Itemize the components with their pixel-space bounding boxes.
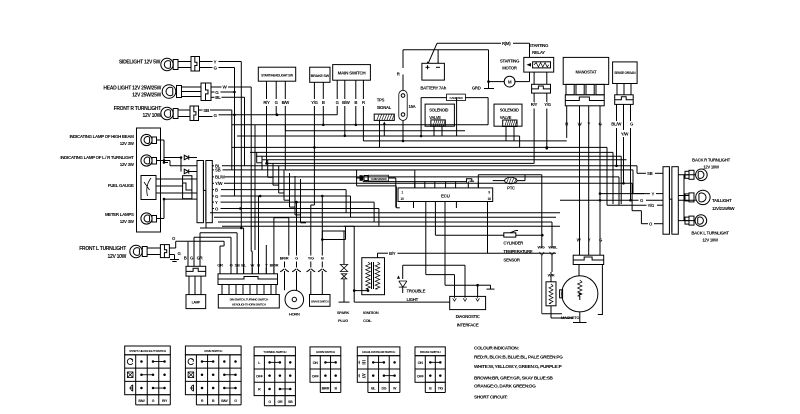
wire coil bottom xyxy=(353,291,355,303)
svg-text:Y: Y xyxy=(587,122,590,127)
table main switch xyxy=(185,346,241,355)
main switch box xyxy=(333,65,371,81)
connector sidelight xyxy=(191,57,200,72)
wire BR/R pin link xyxy=(273,218,275,274)
ECU xyxy=(398,188,493,202)
svg-text:SIGNAL: SIGNAL xyxy=(377,105,392,110)
svg-text:M: M xyxy=(508,80,512,85)
wire W headlight xyxy=(211,86,222,88)
svg-text:BRAKE SW: BRAKE SW xyxy=(311,74,330,78)
diag feed horizontals xyxy=(426,274,455,276)
diode D2 xyxy=(180,158,182,172)
table start/headlight switch xyxy=(125,346,171,355)
wire Y vertical xyxy=(240,62,242,229)
svg-text:Y/G: Y/G xyxy=(438,387,444,391)
wire R manostat xyxy=(566,106,568,138)
nest riser 7 xyxy=(289,173,291,207)
PTC xyxy=(493,180,505,182)
handlebar switch box xyxy=(218,295,279,309)
svg-text:Y/G: Y/G xyxy=(311,100,318,105)
wire G sidelight xyxy=(200,67,213,69)
svg-text:HORN: HORN xyxy=(289,312,300,317)
connector front R turnlight xyxy=(190,106,199,121)
solenoid verticals xyxy=(456,98,458,136)
wire BL out xyxy=(212,165,214,167)
wire W pin xyxy=(251,250,252,252)
svg-text:Y/W: Y/W xyxy=(621,131,629,136)
staircase YW to O tail xyxy=(631,183,633,210)
table horn switch xyxy=(310,347,341,356)
svg-text:B: B xyxy=(184,256,187,261)
wire R/Y relay xyxy=(533,93,535,102)
svg-text:12V/21W/5W: 12V/21W/5W xyxy=(712,206,736,211)
wire meter lamp xyxy=(157,218,165,220)
handlebar connector xyxy=(218,274,278,285)
svg-text:START/HEADLIGHT SW: START/HEADLIGHT SW xyxy=(261,74,294,78)
svg-text:BACK L TURNLIGHT: BACK L TURNLIGHT xyxy=(691,231,729,236)
diagnostic interface xyxy=(450,296,486,309)
svg-text:METER LAMPS: METER LAMPS xyxy=(105,212,134,217)
wire headlight to connector xyxy=(182,86,202,88)
bus line y130.8 xyxy=(285,130,465,132)
svg-text:B: B xyxy=(354,100,357,105)
svg-text:SB: SB xyxy=(288,400,293,404)
wire high beam lamp xyxy=(157,139,165,141)
wire B/Y xyxy=(377,253,379,258)
svg-text:TEMPERATURE: TEMPERATURE xyxy=(503,249,533,254)
diode D1 xyxy=(164,157,181,159)
svg-text:HIGH/LOW BEAM SWITCH: HIGH/LOW BEAM SWITCH xyxy=(362,350,396,354)
wire front R turnlight xyxy=(178,109,190,111)
wire y239.5 xyxy=(322,239,345,241)
spark feed xyxy=(343,231,345,265)
wire Y/G tail xyxy=(607,204,647,206)
svg-text:TPS: TPS xyxy=(377,98,385,103)
wire G vertical xyxy=(234,68,236,197)
spark plug xyxy=(340,265,347,272)
table brake switch xyxy=(415,347,445,356)
svg-text:Y/G: Y/G xyxy=(544,102,551,107)
wires lamp connector to box xyxy=(188,276,190,295)
wire G out xyxy=(212,195,214,197)
wire turnlight lamp xyxy=(157,160,165,162)
svg-text:FRONT L TURNLIGHT: FRONT L TURNLIGHT xyxy=(79,246,126,252)
wire W vertical xyxy=(250,87,252,251)
nest riser 2 xyxy=(261,156,263,170)
svg-text:PLUG: PLUG xyxy=(338,318,348,323)
svg-text:STARTING: STARTING xyxy=(529,43,549,48)
bus line y136 xyxy=(237,135,520,137)
svg-text:Y/G: Y/G xyxy=(308,256,314,261)
wire B/W main switch xyxy=(344,80,346,99)
wire Y/W sense xyxy=(623,104,625,130)
nest riser 4 xyxy=(272,163,274,185)
canister label box xyxy=(421,97,447,99)
svg-text:BR/R: BR/R xyxy=(270,263,279,268)
connector magneto xyxy=(573,255,604,264)
wire vertical x255 xyxy=(254,125,256,250)
wire R/Y start switch xyxy=(266,81,268,99)
connector manostat xyxy=(565,95,604,106)
wire BR/R horn xyxy=(288,218,290,256)
svg-text:SENSE ORGAN: SENSE ORGAN xyxy=(614,71,636,75)
flasher unit xyxy=(183,176,192,199)
svg-text:B/Y: B/Y xyxy=(389,251,396,256)
wire W manostat xyxy=(579,106,581,255)
svg-text:12V 10W: 12V 10W xyxy=(703,165,720,170)
svg-text:VALVE: VALVE xyxy=(429,115,441,120)
table turning switch xyxy=(254,347,295,356)
instrument cluster box xyxy=(137,128,161,232)
wire GR lamp xyxy=(199,233,201,266)
svg-text:SPARK: SPARK xyxy=(337,310,350,315)
svg-text:BR/R: BR/R xyxy=(322,387,330,391)
wire battery minus xyxy=(437,50,439,64)
wire W/BL xyxy=(551,228,553,248)
svg-text:BL: BL xyxy=(215,95,221,100)
svg-text:DG: DG xyxy=(382,387,387,391)
svg-text:OFF: OFF xyxy=(256,374,264,378)
wire Y/G switch xyxy=(313,147,315,205)
wires diagnostic xyxy=(454,275,456,297)
wire G headlight xyxy=(211,91,215,93)
svg-text:START / HEADLIGHT SWITCH: START / HEADLIGHT SWITCH xyxy=(129,349,167,353)
svg-text:FRONT R TURNLIGHT: FRONT R TURNLIGHT xyxy=(114,106,162,112)
ECU left tab xyxy=(395,186,397,207)
wire Y sidelight xyxy=(200,61,213,63)
svg-text:SIDELIGHT 12V 5W: SIDELIGHT 12V 5W xyxy=(119,60,161,66)
staircase BL to SB tail xyxy=(636,166,638,174)
ECU pin verticals down xyxy=(425,202,427,275)
connector headlight xyxy=(201,83,211,101)
wire BL/W out xyxy=(212,176,214,178)
nest riser 3 xyxy=(267,160,269,178)
wire canister right xyxy=(487,98,489,125)
wire G front R turnlight bus xyxy=(199,116,213,118)
wire L/R lamp to connector xyxy=(164,160,170,162)
svg-text:SOLENOID: SOLENOID xyxy=(429,108,448,113)
svg-text:BATTERY 7Ah: BATTERY 7Ah xyxy=(420,86,446,91)
nest riser 9 xyxy=(300,179,302,223)
svg-text:R/Y: R/Y xyxy=(263,100,270,105)
nest corner B switch xyxy=(322,230,345,232)
wire G lamp xyxy=(193,237,195,266)
svg-text:BRAKE SWITCH: BRAKE SWITCH xyxy=(420,350,442,354)
svg-text:BL/W: BL/W xyxy=(215,175,226,180)
svg-text:12V 10W: 12V 10W xyxy=(143,113,162,119)
wire Y/W out xyxy=(212,182,214,184)
wire SB out xyxy=(212,169,214,171)
connector instrument cluster xyxy=(197,161,203,223)
carbon sensor label xyxy=(369,175,389,181)
svg-text:DIM SWITCH, TURNING SWITCH: DIM SWITCH, TURNING SWITCH xyxy=(230,297,268,301)
solenoid valve 2 xyxy=(494,104,522,126)
svg-text:MAIN SWITCH: MAIN SWITCH xyxy=(338,71,367,76)
wire R fuse xyxy=(402,75,404,91)
svg-text:B/W: B/W xyxy=(282,100,291,105)
svg-text:FUEL GAUGE: FUEL GAUGE xyxy=(108,183,134,188)
svg-text:B/W: B/W xyxy=(221,399,228,403)
handlebar connector pins xyxy=(221,285,223,295)
wire ignition coil feed xyxy=(353,226,355,290)
wire B brake xyxy=(322,82,324,99)
hook jumper near ECU xyxy=(467,179,472,183)
svg-text:STARTING: STARTING xyxy=(500,59,520,64)
wire Y pin xyxy=(265,245,267,274)
lamp box xyxy=(186,295,206,309)
table high/low beam switch xyxy=(357,347,400,356)
svg-text:INTERFACE: INTERFACE xyxy=(457,323,479,328)
wire nest y232 xyxy=(200,232,237,234)
rear brake switch box xyxy=(310,295,331,307)
svg-text:SHORT CIRCUIT:: SHORT CIRCUIT: xyxy=(474,394,508,399)
wire BL vertical xyxy=(244,97,246,166)
wire SB tail xyxy=(641,172,646,174)
svg-text:Y: Y xyxy=(215,200,218,205)
fuse 15A xyxy=(399,90,407,120)
svg-text:TURNING SWITCH: TURNING SWITCH xyxy=(263,350,287,354)
magneto ground xyxy=(579,312,581,323)
wire R main switch xyxy=(362,80,364,99)
svg-text:B/W: B/W xyxy=(342,100,351,105)
horn xyxy=(285,290,304,309)
svg-text:G: G xyxy=(295,256,298,261)
front brake switch box xyxy=(310,67,330,82)
bus line y159.8 xyxy=(262,159,627,161)
bus line y152.4 xyxy=(250,151,613,153)
magneto xyxy=(562,276,598,312)
long bus y212.7 xyxy=(210,212,560,214)
svg-text:CYLINDER: CYLINDER xyxy=(503,241,524,246)
wire GR pin xyxy=(200,227,206,229)
wire fuel gauge to connector xyxy=(156,178,197,180)
bus line y181.6 xyxy=(363,181,467,183)
wire G tail xyxy=(560,199,639,201)
staircase BLW down xyxy=(618,177,620,205)
ECU bottom pins xyxy=(413,202,415,209)
wire B out xyxy=(212,189,214,191)
wire O out xyxy=(212,208,214,210)
svg-text:R/Y: R/Y xyxy=(531,102,538,107)
svg-text:HORN SWITCH: HORN SWITCH xyxy=(316,350,336,354)
connector sense organ xyxy=(615,95,634,105)
svg-text:RELAY: RELAY xyxy=(532,50,545,55)
wire B main switch xyxy=(355,80,357,99)
wire G horn xyxy=(296,202,298,255)
svg-text:BRAKE SWITCH: BRAKE SWITCH xyxy=(311,300,329,304)
wire O nest xyxy=(176,240,224,242)
wire G start switch xyxy=(275,81,277,99)
bus line y124.8 xyxy=(232,124,488,126)
svg-text:LIGHT: LIGHT xyxy=(407,297,419,302)
long bus y217.3 xyxy=(214,216,556,218)
wire canister left xyxy=(420,98,422,136)
wire sidelight to connector xyxy=(178,61,191,63)
svg-text:PTC: PTC xyxy=(507,186,515,191)
svg-text:ON: ON xyxy=(418,361,424,365)
carbon sensor plug xyxy=(356,177,360,179)
svg-text:15A: 15A xyxy=(409,104,416,109)
nest corners to pins xyxy=(223,241,225,246)
wire battery plus xyxy=(428,43,437,63)
cylinder temperature sensor xyxy=(435,234,503,236)
nest riser 5 xyxy=(278,166,280,193)
svg-text:12V 10W: 12V 10W xyxy=(702,238,719,243)
svg-text:VALVE: VALVE xyxy=(500,115,512,120)
battery xyxy=(422,63,445,80)
bus line y147.4 YG net xyxy=(232,146,607,148)
wire SB front R xyxy=(199,109,203,111)
svg-text:R(M): R(M) xyxy=(502,41,511,46)
svg-text:B: B xyxy=(322,100,325,105)
svg-text:W/BL: W/BL xyxy=(548,245,558,250)
svg-text:TAILLIGHT: TAILLIGHT xyxy=(712,198,732,203)
svg-text:16: 16 xyxy=(488,197,492,201)
wire G main switch xyxy=(336,80,338,99)
svg-text:OFF: OFF xyxy=(417,374,425,378)
tail bulb links xyxy=(683,175,685,221)
bus line y156.2 xyxy=(256,155,621,157)
svg-text:SB: SB xyxy=(647,171,653,176)
svg-text:INDICATING LAMP OF L / R TURNL: INDICATING LAMP OF L / R TURNLIGHT xyxy=(60,155,134,160)
connector starting relay xyxy=(533,72,535,84)
wire B pin xyxy=(258,196,260,274)
ECU top pins xyxy=(414,182,416,188)
staircase SB to Y tail xyxy=(631,169,634,171)
svg-text:SB: SB xyxy=(203,108,210,113)
svg-text:B: B xyxy=(215,187,218,192)
svg-text:10: 10 xyxy=(400,197,404,201)
svg-text:BR/R: BR/R xyxy=(280,256,289,261)
svg-text:GRD: GRD xyxy=(472,86,481,91)
svg-text:BL/W: BL/W xyxy=(611,122,622,127)
trouble light xyxy=(402,265,404,279)
wire Y out xyxy=(212,201,214,203)
svg-text:CARB SENSOR: CARB SENSOR xyxy=(371,177,387,181)
wire Y/G brake xyxy=(313,82,315,99)
svg-text:12V 3W: 12V 3W xyxy=(120,162,135,167)
wire nest y237 xyxy=(194,236,231,238)
svg-text:IGNITION: IGNITION xyxy=(363,310,379,315)
wire BL headlight xyxy=(211,96,215,98)
wire spark plug xyxy=(343,231,345,265)
svg-text:TROUBLE: TROUBLE xyxy=(407,289,426,294)
svg-text:W/G: W/G xyxy=(538,245,545,250)
nest riser 8 xyxy=(294,176,296,215)
svg-text:INDICATING LAMP OF HIGH BEAM: INDICATING LAMP OF HIGH BEAM xyxy=(69,134,134,139)
taillight xyxy=(685,194,689,201)
long bus y222 xyxy=(218,221,552,223)
svg-text:W: W xyxy=(250,263,254,268)
bus line y163.4 RY net xyxy=(267,162,535,164)
svg-text:MAGNETO: MAGNETO xyxy=(561,315,579,320)
svg-text:ON: ON xyxy=(313,361,319,365)
wire G sense xyxy=(630,104,632,121)
solenoid valve 1 xyxy=(425,104,454,126)
connector lamp xyxy=(186,266,206,276)
svg-text:ECU: ECU xyxy=(441,193,450,198)
svg-text:WHITE:W, YELLOW:Y, GREEN:G, PU: WHITE:W, YELLOW:Y, GREEN:G, PURPLE:P xyxy=(474,364,562,369)
wire O front L xyxy=(169,247,175,249)
nest corner left of ECU xyxy=(357,185,397,187)
svg-text:COIL: COIL xyxy=(363,318,372,323)
ignition coil xyxy=(362,258,385,295)
svg-text:GR: GR xyxy=(278,400,283,404)
svg-text:LAMP: LAMP xyxy=(192,301,201,305)
svg-text:BROWN:BR, GREY:GR, SKAY BLUE:S: BROWN:BR, GREY:GR, SKAY BLUE:SB xyxy=(474,375,554,380)
bus line y174.7 WG net xyxy=(478,174,542,176)
svg-text:Y/G: Y/G xyxy=(648,203,655,208)
svg-text:HEADLIGHT HORN SWITCH: HEADLIGHT HORN SWITCH xyxy=(232,302,266,306)
svg-text:B: B xyxy=(257,263,260,268)
start headlight switch box xyxy=(258,67,295,81)
nest riser 1 xyxy=(256,152,258,162)
svg-text:R/Y: R/Y xyxy=(162,399,168,403)
svg-text:COLOUR INDICATION:: COLOUR INDICATION: xyxy=(474,346,520,351)
wire G bus long xyxy=(235,114,338,116)
svg-text:B/W: B/W xyxy=(138,399,145,403)
svg-text:Y: Y xyxy=(214,59,217,64)
long bus y226.3 xyxy=(222,225,560,227)
wire Y tail xyxy=(600,193,650,195)
bus line y140.9 R net xyxy=(363,140,566,142)
svg-text:12V 25W/25W: 12V 25W/25W xyxy=(132,93,162,99)
svg-text:Y: Y xyxy=(588,238,591,243)
bus line y170 BW net xyxy=(285,169,415,171)
wire BL/W sense xyxy=(616,104,618,121)
svg-text:GR: GR xyxy=(217,263,223,268)
wire SB vertical xyxy=(231,110,233,170)
wire front L turnlight xyxy=(147,247,160,249)
carbon sensor line xyxy=(389,177,396,179)
wire B/W start switch xyxy=(284,81,286,99)
ground diagnostic xyxy=(478,284,491,286)
svg-text:SB: SB xyxy=(215,168,221,173)
svg-text:B: B xyxy=(321,256,324,261)
wire W/G xyxy=(541,175,543,248)
svg-text:SOLENOID: SOLENOID xyxy=(500,108,519,113)
sense organ xyxy=(613,62,638,84)
svg-text:DIAGNOSTIC: DIAGNOSTIC xyxy=(456,314,480,319)
svg-text:12V 3W: 12V 3W xyxy=(120,141,135,146)
svg-text:O: O xyxy=(230,263,233,268)
svg-text:12V 3W: 12V 3W xyxy=(120,219,135,224)
svg-text:MOTOR: MOTOR xyxy=(502,66,518,71)
svg-text:OFF: OFF xyxy=(312,374,320,378)
svg-text:12V 10W: 12V 10W xyxy=(108,254,127,260)
svg-text:Y/W: Y/W xyxy=(215,181,223,186)
svg-text:MANOSTAT: MANOSTAT xyxy=(576,70,597,75)
svg-text:Y: Y xyxy=(652,191,655,196)
wire G manostat xyxy=(599,106,601,255)
nest riser 6 xyxy=(283,170,285,200)
wire B lamp xyxy=(187,242,189,266)
back L turnlight xyxy=(685,217,689,224)
manostat xyxy=(563,57,609,84)
svg-text:HEAD LIGHT 12V 25W/25W: HEAD LIGHT 12V 25W/25W xyxy=(103,86,161,92)
svg-text:ORANGE:O, DARK GREEN:DG: ORANGE:O, DARK GREEN:DG xyxy=(474,383,536,388)
wire Y/G relay xyxy=(546,93,548,102)
svg-text:SB: SB xyxy=(235,263,240,268)
svg-text:MAIN SWITCH: MAIN SWITCH xyxy=(204,349,223,353)
tail connector xyxy=(663,167,669,235)
wire O tail xyxy=(641,223,648,225)
wire nest y228 xyxy=(206,227,241,229)
wire B switch xyxy=(321,196,323,256)
connector front L turnlight xyxy=(160,245,169,258)
TPS second wire xyxy=(379,120,381,147)
svg-text:SENSOR: SENSOR xyxy=(503,258,521,263)
